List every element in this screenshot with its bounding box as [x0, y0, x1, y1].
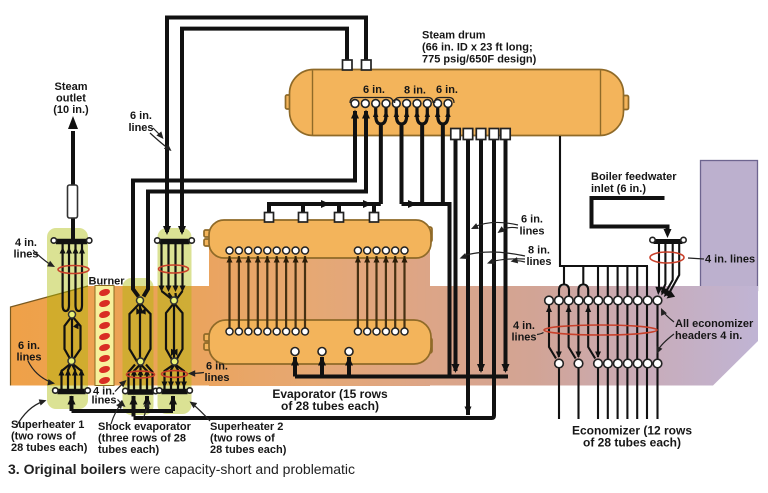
- svg-text:6 in.: 6 in.: [206, 361, 228, 373]
- svg-text:Burner: Burner: [89, 276, 126, 288]
- svg-text:lines: lines: [519, 226, 544, 238]
- svg-text:8 in.: 8 in.: [404, 85, 426, 97]
- svg-text:Shock evaporator: Shock evaporator: [98, 421, 192, 433]
- svg-text:lines: lines: [204, 372, 229, 384]
- svg-text:3. Original boilers were capac: 3. Original boilers were capacity-short …: [8, 461, 355, 477]
- svg-text:inlet (6 in.): inlet (6 in.): [591, 183, 646, 195]
- svg-text:(10 in.): (10 in.): [53, 104, 89, 116]
- svg-text:headers 4 in.: headers 4 in.: [675, 330, 742, 342]
- svg-text:lines: lines: [13, 249, 38, 261]
- svg-text:lines: lines: [91, 395, 116, 407]
- svg-text:28 tubes each): 28 tubes each): [11, 442, 88, 454]
- svg-text:4 in.: 4 in.: [15, 237, 37, 249]
- svg-text:lines: lines: [128, 122, 153, 134]
- svg-text:Superheater 1: Superheater 1: [11, 419, 84, 431]
- svg-text:6 in.: 6 in.: [18, 340, 40, 352]
- svg-text:Superheater 2: Superheater 2: [210, 421, 283, 433]
- svg-text:(66 in. ID x 23 ft long;: (66 in. ID x 23 ft long;: [422, 42, 533, 54]
- svg-text:6 in.: 6 in.: [130, 110, 152, 122]
- svg-text:lines: lines: [526, 256, 551, 268]
- svg-text:6 in.: 6 in.: [436, 84, 458, 96]
- svg-text:775 psig/650F design): 775 psig/650F design): [422, 54, 537, 66]
- svg-text:of 28 tubes each): of 28 tubes each): [281, 399, 379, 413]
- svg-text:28 tubes each): 28 tubes each): [210, 444, 287, 456]
- svg-text:(three rows of 28: (three rows of 28: [98, 433, 186, 445]
- svg-text:All economizer: All economizer: [675, 318, 754, 330]
- svg-text:8 in.: 8 in.: [528, 245, 550, 257]
- svg-text:(two rows of: (two rows of: [11, 431, 76, 443]
- svg-text:Steam drum: Steam drum: [422, 30, 486, 42]
- svg-text:6 in.: 6 in.: [363, 84, 385, 96]
- svg-text:lines: lines: [511, 332, 536, 344]
- svg-text:of 28 tubes each): of 28 tubes each): [583, 436, 681, 450]
- svg-text:4 in. lines: 4 in. lines: [705, 254, 755, 266]
- svg-text:outlet: outlet: [56, 93, 86, 105]
- svg-text:tubes each): tubes each): [98, 444, 159, 456]
- svg-text:Boiler feedwater: Boiler feedwater: [591, 171, 677, 183]
- svg-text:(two rows of: (two rows of: [210, 433, 275, 445]
- svg-text:6 in.: 6 in.: [521, 214, 543, 226]
- svg-text:Steam: Steam: [54, 81, 87, 93]
- svg-text:4 in.: 4 in.: [513, 320, 535, 332]
